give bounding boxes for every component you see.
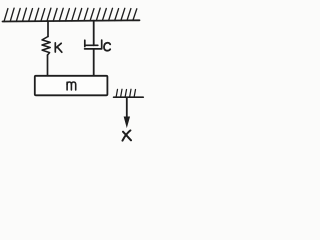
mass m box <box>35 76 108 96</box>
reference support hatching <box>116 89 135 96</box>
damper cylinder <box>85 40 102 49</box>
ceiling line <box>3 20 140 21</box>
label K <box>55 43 62 52</box>
wire spring bottom rod <box>47 55 49 76</box>
reference support line <box>114 96 144 98</box>
wire spring top rod <box>47 21 49 36</box>
damper piston plate <box>85 44 98 46</box>
ceiling hatching <box>4 8 137 21</box>
label m <box>67 82 76 90</box>
label x <box>123 132 131 141</box>
arrow x shaft <box>126 98 128 118</box>
arrow x head <box>124 117 130 127</box>
damper bottom rod <box>93 49 95 76</box>
label c <box>104 43 110 51</box>
spring K <box>42 37 50 56</box>
damper piston rod <box>93 21 95 46</box>
